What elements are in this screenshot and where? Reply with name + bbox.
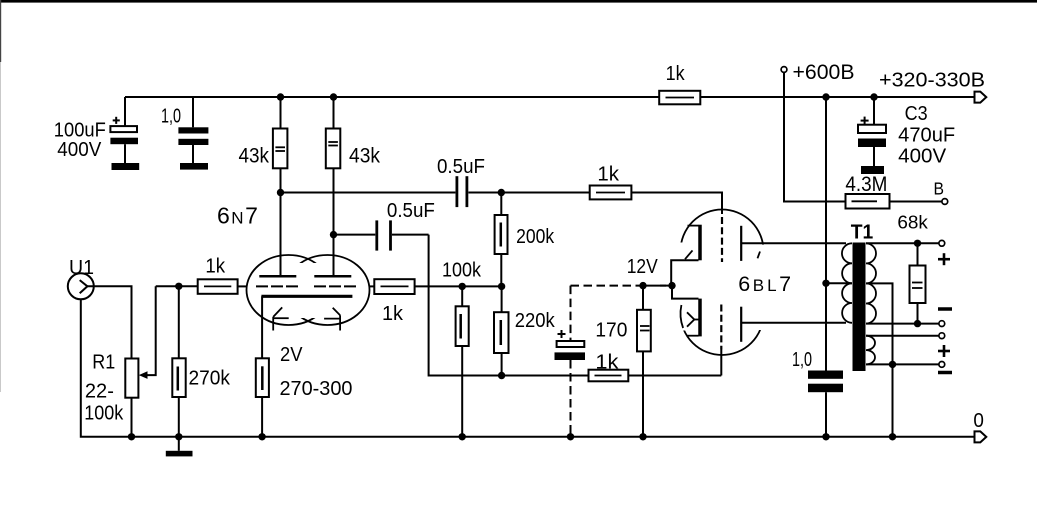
svg-text:170: 170 bbox=[595, 319, 627, 341]
wire 6N7 cathode to resistor bbox=[261, 296, 263, 358]
wire 600B to 4.3M bbox=[784, 72, 846, 201]
wire secondary mid lead bbox=[866, 323, 939, 325]
svg-text:100k: 100k bbox=[84, 402, 124, 424]
resistor 1k grid2 bbox=[370, 279, 502, 294]
svg-text:400V: 400V bbox=[898, 145, 947, 167]
svg-text:470uF: 470uF bbox=[898, 124, 955, 146]
node junction 220k top bbox=[498, 283, 505, 290]
svg-text:2V: 2V bbox=[280, 344, 303, 366]
svg-text:68k: 68k bbox=[897, 212, 928, 233]
wire dashed to bypass cap bbox=[570, 286, 572, 341]
ground bar of C3 bbox=[861, 166, 884, 174]
svg-text:0.5uF: 0.5uF bbox=[437, 156, 485, 178]
ground bar of 100uF bbox=[112, 163, 140, 170]
capacitor 0.5uF lower bbox=[334, 220, 429, 250]
svg-text:R1: R1 bbox=[92, 351, 115, 373]
wire secondary top lead bbox=[866, 242, 939, 244]
svg-text:22-: 22- bbox=[85, 380, 114, 402]
transformer T1 primary winding bbox=[842, 243, 852, 322]
svg-text:1k: 1k bbox=[666, 63, 686, 85]
node junction 12V left bbox=[639, 282, 646, 289]
node junction rail bypass bbox=[567, 433, 574, 440]
wire wiper to grid node bbox=[156, 285, 198, 287]
capacitor C3 470uF bbox=[858, 97, 886, 166]
capacitor 170 bypass bbox=[555, 330, 586, 360]
tube 6N7 cathode bar bbox=[261, 295, 352, 298]
svg-text:B: B bbox=[934, 179, 945, 199]
node 0 output arrow bbox=[975, 431, 987, 442]
tube 6BL7 top heater tick bbox=[685, 250, 693, 259]
svg-text:270-300: 270-300 bbox=[280, 378, 353, 400]
tube 6BL7 bottom grid dashed bbox=[720, 305, 722, 350]
resistor 68k bbox=[910, 243, 926, 323]
svg-text:1,0: 1,0 bbox=[792, 349, 812, 371]
tube 6BL7 top grid dashed bbox=[721, 217, 723, 262]
capacitor 0.5uF upper bbox=[281, 176, 590, 207]
svg-text:220k: 220k bbox=[515, 310, 556, 332]
svg-text:U1: U1 bbox=[69, 257, 94, 279]
svg-text:T1: T1 bbox=[851, 221, 874, 243]
svg-text:1k: 1k bbox=[597, 164, 620, 186]
wire 1k to 6BL7 top grid bbox=[631, 193, 722, 215]
svg-text:0.5uF: 0.5uF bbox=[387, 200, 435, 222]
wire primary tap bbox=[826, 282, 852, 284]
svg-text:100k: 100k bbox=[442, 260, 482, 282]
node junction rail 170 bbox=[639, 433, 646, 440]
resistor 270k bbox=[172, 286, 185, 437]
label plus bottom bbox=[938, 345, 950, 357]
border frame left tick bbox=[0, 0, 1, 62]
resistor 1k input bbox=[198, 279, 247, 294]
wire U1 down to ground rail bbox=[81, 299, 132, 437]
capacitor 1,0 output bbox=[808, 371, 843, 437]
tube 6N7 right plate bbox=[314, 275, 351, 278]
wire secondary2 top lead bbox=[866, 335, 939, 337]
resistor 1k B+ bbox=[659, 91, 700, 105]
node terminal plus bottom bbox=[939, 333, 945, 339]
capacitor 100uF 400V bbox=[110, 97, 138, 163]
capacitor 1,0 top left bbox=[178, 97, 208, 163]
svg-text:0: 0 bbox=[973, 410, 984, 432]
tube 6BL7 envelope left fragment bbox=[681, 305, 684, 328]
tube 6BL7 top cathode bbox=[671, 225, 700, 286]
svg-text:43k: 43k bbox=[349, 144, 380, 168]
resistor 200k bbox=[495, 193, 508, 287]
wire dashed bypass cap to ground bbox=[570, 360, 572, 437]
svg-text:400V: 400V bbox=[57, 139, 102, 161]
tube 6BL7 bottom cathode bbox=[672, 286, 700, 337]
svg-text:1k: 1k bbox=[205, 256, 226, 278]
tube 6N7 right grid dashed bbox=[314, 285, 356, 287]
node terminal minus bottom bbox=[939, 362, 945, 368]
tube 6BL7 bottom heater bbox=[687, 312, 699, 326]
node junction right plate bbox=[330, 231, 337, 238]
svg-text:12V: 12V bbox=[627, 256, 659, 278]
wire 12V node to cathodes bbox=[643, 285, 672, 287]
wire secondary tap down bbox=[866, 283, 893, 436]
svg-text:200k: 200k bbox=[516, 226, 555, 248]
node junction C3 bbox=[870, 93, 877, 100]
transformer T1 secondary bottom winding bbox=[866, 336, 875, 365]
envelope gaps white bbox=[666, 243, 766, 331]
svg-text:+320-330B: +320-330B bbox=[879, 70, 985, 92]
tube 6N7 right heater bbox=[324, 308, 340, 331]
ground symbol bbox=[166, 437, 193, 457]
tube 6BL7 envelope bbox=[681, 210, 764, 356]
svg-text:43k: 43k bbox=[239, 144, 270, 168]
node junction rail 270k bbox=[175, 433, 182, 440]
node junction 220k bottom bbox=[498, 372, 505, 379]
label plus top bbox=[938, 253, 950, 265]
border frame top bbox=[0, 0, 1037, 3]
resistor 43k left bbox=[273, 93, 288, 276]
node B terminal bbox=[942, 199, 948, 205]
svg-text:4.3M: 4.3M bbox=[845, 173, 887, 196]
tube 6BL7 bottom plate bbox=[741, 307, 846, 342]
tube 6BL7 top plate bbox=[741, 226, 846, 261]
wire ground rail bbox=[132, 436, 976, 438]
tube 6N7 left grid dashed bbox=[256, 285, 300, 287]
tube 6N7 left heater bbox=[273, 307, 289, 330]
svg-text:270k: 270k bbox=[189, 368, 231, 390]
node junction rail tap bbox=[822, 93, 829, 100]
svg-text:1k: 1k bbox=[382, 303, 404, 325]
wire secondary2 bottom lead bbox=[866, 363, 939, 365]
label minus top bbox=[938, 307, 952, 311]
resistor 43k right bbox=[326, 93, 341, 276]
node junction 270k top bbox=[175, 283, 182, 290]
svg-text:100uF: 100uF bbox=[54, 120, 106, 142]
wire coupling lower to 6BL7 bottom grid bbox=[429, 235, 589, 376]
wire rail to primary tap and 1,0 cap bbox=[825, 97, 827, 371]
potentiometer R1 bbox=[125, 359, 138, 437]
wire up to 6BL7 bottom grid bbox=[720, 350, 722, 376]
tube 6N7 left plate bbox=[259, 275, 296, 278]
node junction rail 1,0 bbox=[822, 433, 829, 440]
svg-text:C3: C3 bbox=[905, 103, 928, 125]
node junction 68k bottom bbox=[914, 320, 921, 327]
transformer T1 secondary top winding bbox=[866, 243, 876, 323]
resistor 170 cathode bbox=[637, 286, 651, 437]
resistor 100k bbox=[456, 286, 469, 436]
node junction 200k top bbox=[498, 189, 505, 196]
node junction rail 100k bbox=[459, 433, 466, 440]
node junction primary tap bbox=[822, 280, 829, 287]
node +600B terminal bbox=[781, 67, 787, 73]
wire 12V dashed heater line bbox=[571, 285, 644, 287]
node junction rail secondary bbox=[889, 433, 896, 440]
node junction 12V right bbox=[668, 282, 675, 289]
node terminal minus top bbox=[939, 321, 945, 327]
wire U1 to R1 top bbox=[87, 286, 131, 358]
node junction rail R1 bbox=[128, 433, 135, 440]
node junction left plate bbox=[277, 189, 284, 196]
tube 6BL7 right arc tick bbox=[758, 252, 761, 259]
tube 6N7 envelope bbox=[247, 255, 370, 325]
transformer T1 core bbox=[853, 243, 866, 372]
ground bar of 1,0 bbox=[180, 163, 208, 170]
resistor 2V cathode 270-300 bbox=[256, 358, 269, 437]
node junction rail 2V bbox=[258, 433, 265, 440]
svg-text:+600B: +600B bbox=[793, 60, 855, 84]
resistor 4.3M bbox=[846, 194, 943, 209]
node +320-330B output arrow bbox=[975, 92, 987, 103]
svg-text:1k: 1k bbox=[595, 352, 619, 374]
node junction 100k top bbox=[459, 283, 466, 290]
node junction secondary tap bottom bbox=[889, 361, 896, 368]
svg-text:1,0: 1,0 bbox=[161, 106, 181, 128]
resistor 1k coupling bottom bbox=[589, 370, 722, 382]
resistor 220k bbox=[494, 286, 509, 375]
node terminal plus top bbox=[939, 240, 945, 246]
node junction 12V right redraw bbox=[668, 282, 675, 289]
wire 12V node redraw bbox=[660, 285, 672, 287]
label minus bottom bbox=[938, 371, 952, 375]
node U1 input jack bbox=[68, 273, 94, 299]
wire top B+ rail bbox=[125, 96, 975, 98]
wiper arrow of R1 bbox=[139, 286, 156, 379]
resistor 1k coupling top bbox=[590, 186, 632, 200]
node junction 68k top bbox=[914, 240, 921, 247]
